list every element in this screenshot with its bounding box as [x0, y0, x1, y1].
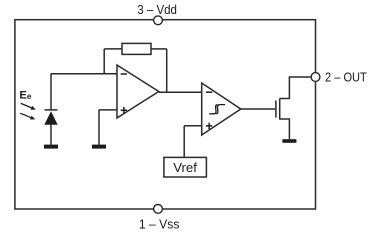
- wire: feedback right vertical (resistor to op-amp output): [166, 49, 168, 92]
- ground (op-amp plus input): [92, 145, 106, 149]
- irradiance arrow 2: [30, 116, 35, 120]
- op-amp minus sign: [121, 73, 127, 75]
- wire: photodiode top lead: [50, 74, 52, 110]
- terminal pad 3 (Vdd): [154, 16, 163, 25]
- wire: resistor left lead: [104, 48, 122, 50]
- wire: op-amp plus input: [99, 109, 117, 111]
- wire: drain lead: [280, 77, 311, 99]
- wire: photodiode bottom lead: [50, 125, 52, 145]
- transistor Q1 channel bar: [279, 98, 281, 119]
- wire: comparator output to MOSFET gate: [241, 108, 275, 110]
- op-amp plus sign: [121, 107, 127, 113]
- resistor R (feedback): [122, 43, 151, 54]
- wire: resistor right lead: [151, 48, 167, 50]
- photodiode D triangle: [44, 111, 57, 124]
- terminal pad 1 (Vss): [154, 205, 163, 214]
- wire: source lead: [280, 119, 290, 139]
- hysteresis symbol inside comparator: [209, 105, 225, 114]
- irradiance arrow 1: [31, 106, 36, 110]
- ground (photodiode): [44, 145, 58, 149]
- transistor Q1 gate bar: [275, 100, 277, 117]
- wire: op-amp plus to ground vertical: [98, 110, 100, 145]
- wire: feedback left vertical (resistor to minus net): [103, 49, 105, 74]
- comparator plus sign: [206, 123, 212, 129]
- wire: comparator plus input horizontal: [184, 125, 202, 127]
- op-amp U1 triangle: [117, 65, 159, 118]
- wire: inverting-input net (photodiode cathode to op-amp minus): [51, 73, 117, 75]
- wire: op-amp output to comparator minus: [159, 91, 202, 93]
- ground (MOSFET source): [282, 139, 296, 143]
- IC boundary frame: [15, 20, 316, 209]
- comparator minus sign: [206, 91, 212, 93]
- svg-text:Ee: Ee: [19, 90, 31, 102]
- svg-text:2 – OUT: 2 – OUT: [325, 70, 367, 85]
- wire: Vref to comparator plus vertical: [183, 126, 185, 158]
- photodiode D (cathode bar): [45, 109, 58, 111]
- svg-text:3 – Vdd: 3 – Vdd: [137, 2, 177, 17]
- svg-text:Vref: Vref: [173, 160, 197, 175]
- terminal pad 2 (OUT): [311, 73, 320, 82]
- svg-text:1 – Vss: 1 – Vss: [139, 216, 180, 230]
- Vref reference box: [164, 157, 207, 177]
- comparator U2 triangle (Schmitt): [202, 83, 241, 135]
